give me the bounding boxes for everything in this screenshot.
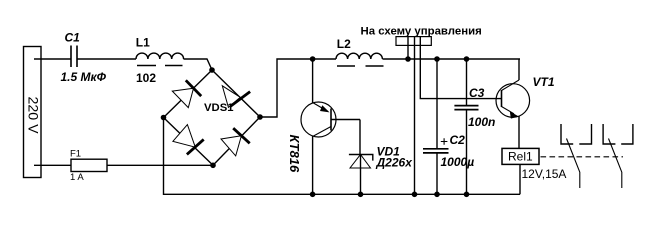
svg-text:На схему управления: На схему управления — [361, 26, 482, 38]
svg-text:12V,15A: 12V,15A — [522, 167, 567, 181]
svg-text:F1: F1 — [70, 149, 81, 160]
svg-text:102: 102 — [136, 71, 156, 85]
svg-text:C1: C1 — [65, 31, 81, 45]
svg-text:Д226x: Д226x — [376, 156, 414, 170]
svg-text:1000µ: 1000µ — [441, 155, 475, 169]
svg-text:Rel1: Rel1 — [508, 150, 533, 164]
svg-text:C2: C2 — [450, 133, 466, 147]
svg-text:VDS1: VDS1 — [204, 102, 234, 114]
svg-text:L2: L2 — [337, 37, 351, 51]
svg-text:VT1: VT1 — [533, 75, 555, 89]
svg-text:L1: L1 — [136, 36, 150, 50]
svg-text:220 V: 220 V — [24, 97, 40, 135]
svg-text:1 A: 1 A — [70, 172, 84, 183]
svg-text:C3: C3 — [469, 86, 485, 100]
svg-text:КТ816: КТ816 — [287, 135, 302, 174]
svg-text:100n: 100n — [468, 115, 495, 129]
svg-text:1.5 МкФ: 1.5 МкФ — [61, 70, 107, 84]
